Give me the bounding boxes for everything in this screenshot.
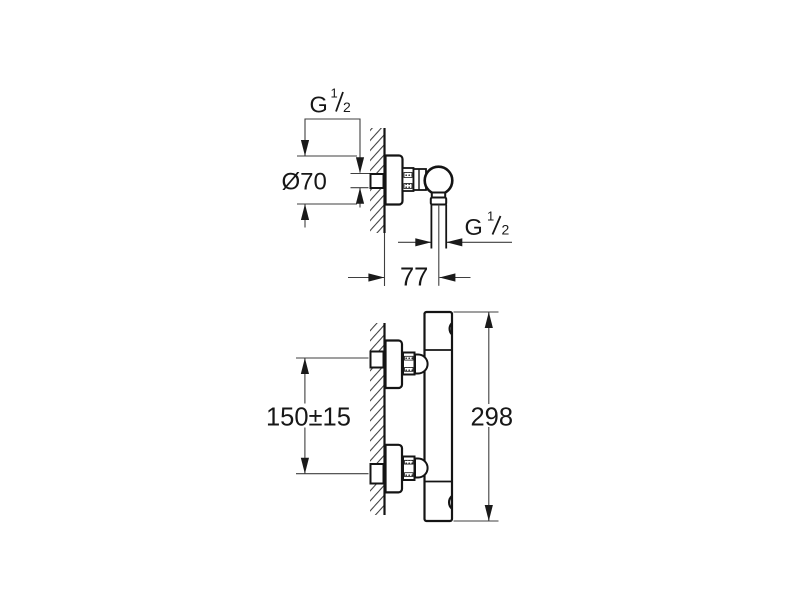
svg-text:77: 77 xyxy=(400,264,428,292)
svg-text:G: G xyxy=(465,214,483,240)
svg-text:2: 2 xyxy=(502,222,510,238)
svg-text:150±15: 150±15 xyxy=(266,404,351,432)
svg-text:1: 1 xyxy=(487,209,494,224)
svg-text:298: 298 xyxy=(471,404,514,432)
svg-text:G: G xyxy=(310,92,328,118)
svg-text:Ø70: Ø70 xyxy=(282,169,327,196)
svg-text:1: 1 xyxy=(331,86,338,101)
svg-text:2: 2 xyxy=(343,99,351,115)
